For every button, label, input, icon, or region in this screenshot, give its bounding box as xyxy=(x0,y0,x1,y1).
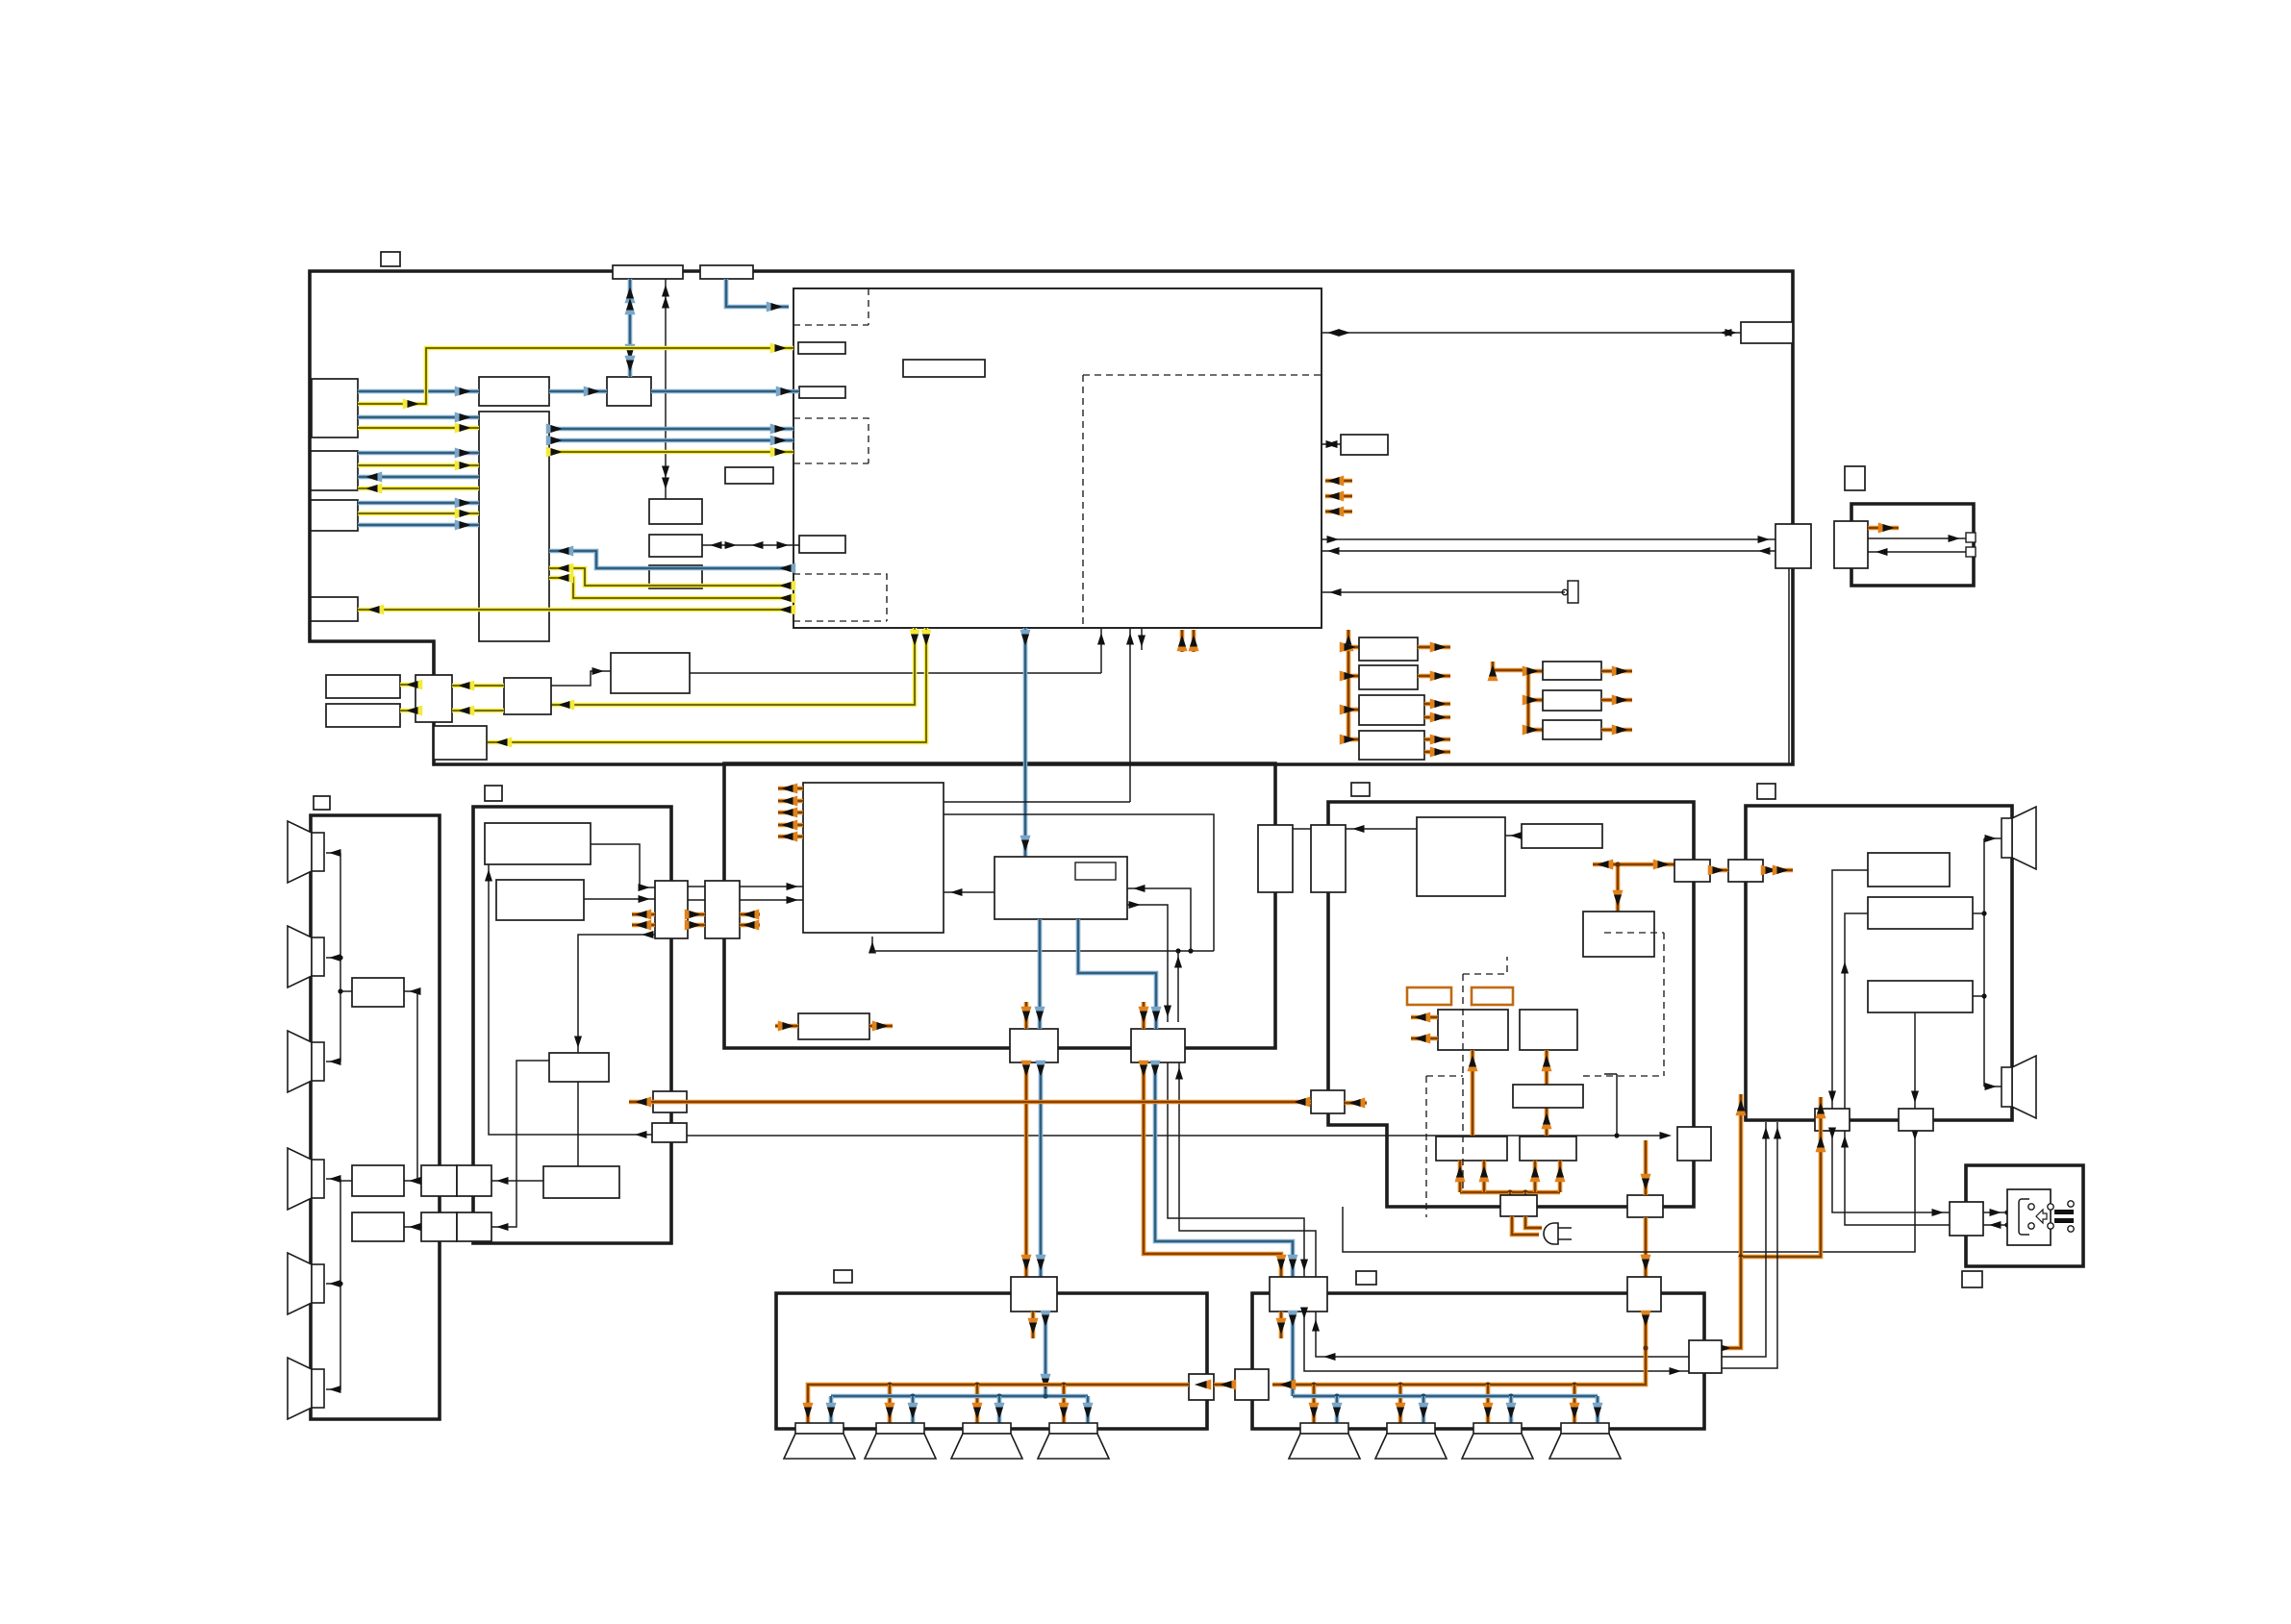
box B7 amp xyxy=(1868,897,1973,929)
box M2b mux xyxy=(705,881,740,938)
box V1 on border xyxy=(1258,825,1293,892)
switch jack symbol xyxy=(1568,581,1578,603)
box pair1 left half xyxy=(421,1165,457,1196)
box 2b xyxy=(496,880,584,920)
wire orange M2a stub a xyxy=(632,912,655,917)
wire orange bus to O5 xyxy=(1528,669,1543,674)
section 3 digital-board outline xyxy=(724,763,1275,1048)
speaker left 4 xyxy=(288,1148,312,1210)
wire M2b to DSP b xyxy=(740,899,803,901)
wire orange stub up into LSI bottom a xyxy=(1180,630,1185,652)
wire blue L2b to TBX xyxy=(358,501,479,506)
wire orange bus into Z1 b xyxy=(1523,1192,1528,1195)
box R1 xyxy=(504,678,551,714)
speaker left 3 xyxy=(288,1031,312,1092)
speaker bottom B2-2 xyxy=(1387,1423,1435,1434)
wire blue KB1 to bus xyxy=(1044,1312,1048,1396)
box R3 xyxy=(1513,1085,1583,1108)
box C7 amp xyxy=(1868,981,1973,1012)
wire blue L1 to M1 xyxy=(358,389,479,394)
wire orange O6 out xyxy=(1601,698,1632,703)
box C in LSI xyxy=(903,360,985,377)
wire black KB2 to KB5 xyxy=(1304,1312,1689,1371)
wire orange Z1 to plug b xyxy=(1525,1216,1542,1228)
box A7 amp xyxy=(1868,853,1950,887)
wire B7 to bus xyxy=(1973,912,1984,914)
wire R1 to S xyxy=(551,671,611,686)
wire blue bus B2 xyxy=(1293,1394,1598,1399)
wire blue TBX to LSI sub2 a xyxy=(549,427,793,432)
wire orange DSP stub 4 xyxy=(778,823,803,828)
wire bus up into DSP bottom xyxy=(871,937,873,951)
wire LSI to box V bidirectional xyxy=(1322,443,1341,445)
wire orange X2 out xyxy=(1763,868,1793,873)
wire orange Z1 to plug a xyxy=(1512,1216,1539,1235)
wire orange DSP stub 5 xyxy=(778,835,803,839)
box selector TBX xyxy=(479,412,549,641)
wire orange bus into Z1 a xyxy=(1508,1192,1513,1195)
wire blue LSI down to box J xyxy=(1023,628,1028,857)
wire bus into right sp2 xyxy=(1984,1086,2001,1087)
label square section 8 xyxy=(1962,1271,1982,1287)
wire orange stub into LSI right a xyxy=(1325,479,1352,484)
wire orange bus to R4a a xyxy=(1458,1161,1463,1192)
wire jack to LSI xyxy=(1322,591,1565,593)
wire yellow Q to P1 xyxy=(400,683,415,687)
box PSU3 xyxy=(1583,912,1654,957)
box PSU2 xyxy=(1522,824,1602,848)
wire blue L2 to TBX xyxy=(358,451,479,456)
wire outlet to SW xyxy=(1983,1224,2007,1226)
box O7 regulator xyxy=(1543,720,1601,739)
wire bus1 to sp3 xyxy=(326,1061,340,1062)
dashed sub-block 3 in LSI xyxy=(793,574,887,621)
dashed power group e xyxy=(1583,1075,1664,1077)
dashed power group a xyxy=(1462,974,1464,1192)
box K1 output IC xyxy=(1010,1029,1058,1062)
wire pair1 riser to E1 xyxy=(404,991,417,1181)
section 6 amp-board outline xyxy=(1746,806,2012,1120)
wire orange bus to O4 xyxy=(1348,737,1359,742)
wire B7 down to Z4 xyxy=(1845,913,1868,1109)
wire box S to riser xyxy=(690,672,1101,674)
box O6 regulator xyxy=(1543,690,1601,711)
wire orange junction down to PSU3 xyxy=(1616,864,1621,912)
wire orange O2 out xyxy=(1418,674,1450,679)
box OB1 orange outline xyxy=(1407,987,1451,1005)
section 1 main-board outline xyxy=(310,271,1793,764)
wire orange M2a stub b xyxy=(632,923,655,928)
wire orange drop spB3 xyxy=(975,1385,980,1423)
wire orange transformer bus xyxy=(1460,1190,1560,1195)
wire orange KB5 to riser xyxy=(1722,1257,1741,1348)
wire 2d to pair1 xyxy=(491,1180,543,1182)
wire KB5 up to amp b xyxy=(1722,1122,1777,1368)
wire blue LSI return to TBX xyxy=(549,551,793,568)
wire orange M2a to M2b b xyxy=(688,923,705,928)
box DSP xyxy=(803,783,944,933)
wire orange DSP stub 3 xyxy=(778,811,803,815)
wire blue drop spB3 xyxy=(997,1396,1002,1423)
wire blue drop spB4 xyxy=(1086,1396,1091,1423)
label square section 5 xyxy=(1351,783,1370,796)
box KB0 between sections xyxy=(1189,1374,1214,1400)
wire yellow LSI return to TBX a xyxy=(549,568,793,586)
box X1 on border xyxy=(1674,860,1710,882)
box KB5 on border xyxy=(1689,1340,1722,1373)
box R2b regulator xyxy=(1520,1010,1577,1050)
wire orange bus to LSI bottom xyxy=(1347,630,1351,739)
AC outlet icon xyxy=(2007,1189,2051,1245)
wire DSP right to bus xyxy=(944,814,1214,951)
wire orange stub into M2b a xyxy=(740,912,760,917)
wire yellow L2 to TBX xyxy=(358,463,479,468)
section 5 power-board outline xyxy=(1328,802,1694,1207)
wire yellow LSI return to L3 xyxy=(358,608,793,612)
wire right speaker bus xyxy=(1983,838,1985,1087)
box R0 xyxy=(649,499,702,524)
wire orange O4 out b xyxy=(1424,750,1450,755)
wire V1 to V2 xyxy=(1293,828,1311,830)
wire M2a to M2b b xyxy=(688,899,705,901)
speaker right 2 xyxy=(2012,1056,2036,1118)
AC outlet bars xyxy=(2048,1204,2053,1210)
wire 2c to 2d xyxy=(577,1082,579,1166)
wire orange KB1 stub down xyxy=(1031,1312,1036,1338)
wire yellow TBX to L2 return xyxy=(358,487,479,491)
wire speaker bus1 xyxy=(340,853,341,1062)
wire yellow LSI return to TBX b xyxy=(549,578,793,598)
box mux M1 xyxy=(479,377,549,406)
wire blue TBX to LSI sub2 b xyxy=(549,438,793,443)
wire speaker bus2 xyxy=(326,1179,340,1389)
wire KB5 up to amp a xyxy=(1722,1122,1766,1357)
wire bus to J right xyxy=(1127,888,1191,951)
speaker bottom B1-3 xyxy=(963,1423,1011,1434)
wire orange O1 out xyxy=(1418,645,1450,650)
wire W down to border xyxy=(1788,568,1790,764)
wire orange into Z2 top xyxy=(1644,1140,1649,1195)
wire bus into right sp1 xyxy=(1984,837,2001,839)
wire M2a to M2b a xyxy=(688,886,705,887)
wire blue clock2 into LSI xyxy=(726,279,789,307)
dashed power group f xyxy=(1604,932,1664,934)
wire blue SB1 to box B xyxy=(651,389,799,394)
wire SW to outlet xyxy=(1983,1212,2007,1213)
wire blue J to K2 xyxy=(1078,919,1156,1029)
box Z2 on border xyxy=(1627,1195,1663,1217)
box B in LSI xyxy=(799,387,845,398)
wire orange Z2 to KB3 xyxy=(1644,1217,1649,1277)
wire blue K1 to KB1 xyxy=(1039,1062,1044,1277)
wire blue drop B2 x=1661 xyxy=(1596,1396,1600,1423)
wire bus1 to sp1 xyxy=(326,852,340,854)
dashed power group g xyxy=(1463,957,1507,974)
wire C7 to bus xyxy=(1973,995,1984,997)
speaker bottom B1-1 xyxy=(795,1423,843,1434)
wire orange bus right bank xyxy=(1493,662,1528,730)
box P1 display xyxy=(326,675,400,698)
wire orange KB4 to KB0 xyxy=(1214,1383,1235,1387)
wire blue drop spB2 xyxy=(911,1396,916,1423)
wire orange R2a stub a xyxy=(1411,1015,1438,1020)
wire orange O3 out b xyxy=(1424,715,1450,720)
dashed power group c xyxy=(1426,1075,1463,1077)
wire yellow L1 riser to box A xyxy=(358,348,793,404)
wire orange drop B2 x=1366 xyxy=(1312,1385,1317,1423)
wire orange DSP stub 1 xyxy=(778,787,803,791)
wire 2c to pair2 xyxy=(491,1061,549,1227)
wire orange bus B1 xyxy=(808,1385,1189,1423)
box KB2 on border xyxy=(1270,1277,1327,1312)
box pair2 right half xyxy=(457,1212,491,1241)
box 2c xyxy=(549,1053,609,1082)
wire Z4 to SW forward xyxy=(1832,1131,1950,1212)
box X2 xyxy=(1728,860,1763,882)
bottom-right speaker-box outline xyxy=(1252,1293,1704,1429)
box W on right border xyxy=(1775,524,1811,568)
wire bus clock vertical xyxy=(665,279,667,499)
wire orange Z4 loop xyxy=(1741,1094,1821,1257)
wire orange bus to O2 xyxy=(1348,674,1359,679)
wire orange stub into Y2 xyxy=(1345,1101,1367,1106)
wire 2b to M2a xyxy=(584,898,655,900)
dashed sub-block 1 in LSI xyxy=(793,288,869,325)
box E2 in left panel xyxy=(352,1165,404,1196)
wire orange drop B2 x=1547 xyxy=(1486,1385,1491,1423)
box G1 on right border xyxy=(1741,322,1793,343)
speaker left 5 xyxy=(288,1253,312,1314)
wire terminal return to S4a xyxy=(1868,551,1966,553)
wire branch riser to Z3 line xyxy=(1616,1074,1618,1136)
wire PSU1 to V2 xyxy=(1346,828,1417,830)
bottom-left speaker-box outline xyxy=(776,1293,1207,1429)
wire orange bus to R4a b xyxy=(1482,1161,1487,1192)
wire J out down to K2 xyxy=(1127,905,1168,1022)
box V xyxy=(1341,435,1388,455)
wire blue bus B1 xyxy=(831,1394,1088,1399)
label square bottom-left speaker-box xyxy=(834,1270,852,1283)
wire orange stub up into LSI bottom b xyxy=(1192,630,1196,652)
wire orange drop spB2 xyxy=(888,1385,893,1423)
wire pair1 to E2 xyxy=(404,1180,421,1182)
wire blue M1 to SB1 xyxy=(549,389,607,394)
box clock-top-2 xyxy=(700,265,753,279)
wire blue K2 to KB2 xyxy=(1155,1062,1293,1277)
wire bus1 to sp2 xyxy=(326,957,340,959)
box E1 in left panel xyxy=(352,978,404,1007)
dashed power group d xyxy=(1663,933,1665,1076)
box KB4 on border xyxy=(1235,1369,1269,1400)
wire blue TBX to L2 return xyxy=(358,475,479,480)
box O3 regulator xyxy=(1359,695,1424,725)
speaker bottom B2-3 xyxy=(1473,1423,1522,1434)
wire orange into K2 top xyxy=(1142,1002,1146,1029)
speaker right 1 xyxy=(2012,807,2036,869)
dashed sub-block 4 in LSI xyxy=(1083,375,1322,628)
wire orange bus to R4b a xyxy=(1533,1161,1538,1192)
box L4 on border xyxy=(434,726,487,760)
box PSU1 system control xyxy=(1417,817,1505,896)
box D7 on border xyxy=(1899,1109,1933,1131)
box P2 display xyxy=(326,704,400,727)
speaker left 2 xyxy=(288,926,312,987)
wire yellow LSI down to L4 xyxy=(488,628,926,742)
box SRC small xyxy=(798,1013,869,1039)
wire orange KB2 stub down xyxy=(1279,1312,1284,1338)
wire orange into SRC xyxy=(775,1024,798,1029)
wire blue drop B2 x=1390 xyxy=(1335,1396,1340,1423)
box input L1 xyxy=(312,379,358,437)
box J audio DSP xyxy=(994,857,1127,919)
AC plug icon xyxy=(1544,1223,1558,1244)
wire blue drop B2 x=1480 xyxy=(1422,1396,1426,1423)
box central LSI xyxy=(793,288,1322,628)
box OB2 orange outline xyxy=(1472,987,1513,1005)
wire E2 to bus2 xyxy=(340,1180,352,1182)
box input L2b xyxy=(311,500,358,531)
box input L2 xyxy=(311,451,358,490)
wire orange X1 to X2 xyxy=(1710,868,1728,873)
box O4 regulator xyxy=(1359,731,1424,760)
wire orange stub into LSI right c xyxy=(1325,510,1352,514)
wire orange into K1 top xyxy=(1024,1002,1029,1029)
wire blue L1 to TBX xyxy=(358,415,479,420)
wire W to LSI return xyxy=(1322,550,1775,552)
box pair1 right half xyxy=(457,1165,491,1196)
wire yellow TBX to LSI sub2 xyxy=(549,450,793,455)
wire yellow R1 to Q a xyxy=(452,684,504,688)
wire orange O3 out a xyxy=(1424,702,1450,707)
box O1 regulator xyxy=(1359,637,1418,661)
wire orange R4a to R2a xyxy=(1471,1050,1475,1137)
wire 2e to 2a xyxy=(489,864,652,1135)
box SB1 xyxy=(607,377,651,406)
wire orange O4 out a xyxy=(1424,737,1450,742)
wire DSP right to LSI riser xyxy=(944,801,1130,803)
wire pair2 to E2b xyxy=(404,1226,421,1228)
section 2 front-board outline xyxy=(473,807,671,1243)
wire 2a to M2a xyxy=(591,844,655,887)
wire S up into LSI bottom xyxy=(1100,628,1102,673)
box SW mains switch xyxy=(1950,1202,1983,1236)
box E xyxy=(649,535,702,557)
box R4b xyxy=(1520,1137,1576,1161)
box S micom xyxy=(611,653,690,693)
wire orange DSP stub 2 xyxy=(778,799,803,804)
wire orange S4a out stub xyxy=(1868,526,1899,531)
wire orange bus B2 xyxy=(1272,1312,1646,1385)
label square section 2 xyxy=(485,786,502,801)
wire orange SRC out xyxy=(869,1024,893,1029)
wire M2b to DSP a xyxy=(740,886,803,887)
wire orange stub into LSI right b xyxy=(1325,494,1352,499)
speaker bottom B1-4 xyxy=(1049,1423,1097,1434)
wire orange drop B2 x=1456 xyxy=(1398,1385,1403,1423)
wire orange Y2 long line west xyxy=(629,1100,1311,1105)
wire box E to box U double arrows xyxy=(702,544,799,546)
wire blue KB2 to bus xyxy=(1291,1312,1296,1396)
wire orange bus to R4b b xyxy=(1558,1161,1563,1192)
box 2a tuner xyxy=(485,823,591,864)
wire PSU2 to PSU1 xyxy=(1505,835,1522,837)
box F xyxy=(649,565,702,588)
wire E1 to bus1 xyxy=(340,990,352,992)
wire K2 up to bus xyxy=(1177,951,1179,1022)
box V2 on border xyxy=(1311,825,1346,892)
wire orange R3 to R2b xyxy=(1545,1050,1549,1085)
box pair2 left half xyxy=(421,1212,457,1241)
box 2d xyxy=(543,1166,619,1198)
section 4 top-right speaker-box outline xyxy=(1851,504,1974,586)
wire orange R2a stub b xyxy=(1411,1037,1438,1041)
box U in LSI xyxy=(799,536,845,553)
wire yellow LSI down to R1 xyxy=(551,628,915,705)
wire orange bus to O1 xyxy=(1348,645,1359,650)
box K2 output IC xyxy=(1131,1029,1185,1062)
box J inner xyxy=(1075,862,1116,880)
wire orange drop spB4 xyxy=(1062,1385,1067,1423)
label square left speaker panel xyxy=(314,796,330,810)
box O2 regulator xyxy=(1359,665,1418,689)
speaker left 1 xyxy=(288,821,312,883)
wire yellow L1 to TBX xyxy=(358,426,479,431)
box M2a mux xyxy=(655,881,688,938)
wire orange drop B2 x=1637 xyxy=(1573,1385,1577,1423)
wire bus2 to sp5 xyxy=(326,1283,340,1285)
wire orange bus to O6 xyxy=(1528,698,1543,703)
box Y2 xyxy=(1311,1090,1345,1113)
wire orange bus to O3 xyxy=(1348,708,1359,712)
box clock-top-1 xyxy=(613,265,683,279)
box KB1 on border xyxy=(1011,1277,1057,1312)
box Z1 transformer on border xyxy=(1500,1195,1537,1216)
box input L3 xyxy=(311,597,358,621)
left speaker-panel outline xyxy=(311,815,440,1419)
wire orange bus to O7 xyxy=(1528,728,1543,733)
wire orange M2a to M2b a xyxy=(688,912,705,917)
wire 2e long line to Z3 xyxy=(687,1135,1667,1137)
terminal square return xyxy=(1966,547,1976,557)
section 8 AC-inlet outline xyxy=(1966,1165,2083,1266)
box A in LSI xyxy=(798,342,845,354)
label square section 6 xyxy=(1757,784,1775,799)
wire LSI bottom down stub xyxy=(1141,628,1143,650)
box KB3 on border xyxy=(1627,1277,1661,1312)
wire black KB5 to KB2 xyxy=(1316,1312,1689,1357)
dashed sub-block 2 in LSI xyxy=(793,418,869,463)
box S4a amp xyxy=(1834,521,1868,568)
wire blue L2b to TBX 2 xyxy=(358,523,479,528)
wire bus2 to sp4 xyxy=(326,1178,340,1180)
wire DSP up into LSI bottom xyxy=(1129,628,1131,802)
wire SW to Z4 return xyxy=(1845,1131,1950,1225)
label square section 4 xyxy=(1845,466,1865,490)
box D xyxy=(725,467,773,484)
terminal square out xyxy=(1966,533,1976,542)
wire orange K1 to KB1 xyxy=(1024,1062,1029,1277)
box Z3 on border xyxy=(1677,1127,1711,1161)
wire LSI to G1 bidirectional xyxy=(1322,332,1741,334)
wire yellow L2b to TBX xyxy=(358,512,479,516)
label square bottom-right speaker-box xyxy=(1356,1271,1376,1285)
wire orange K2 to KB2 xyxy=(1144,1062,1281,1277)
wire orange stub into M2b b xyxy=(740,923,760,928)
speaker bottom B1-2 xyxy=(876,1423,924,1434)
box 2e on border xyxy=(652,1123,687,1142)
box E2b in left panel xyxy=(352,1212,404,1241)
wire orange junction to X1 xyxy=(1593,862,1674,867)
